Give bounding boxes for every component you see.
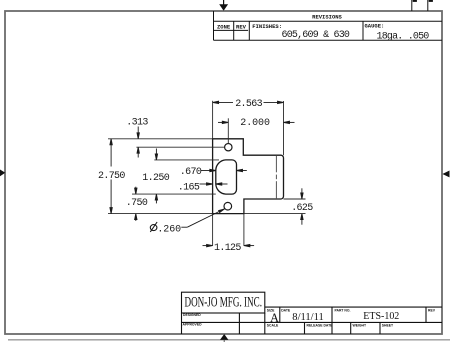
svg-text:.670: .670 bbox=[180, 167, 202, 178]
svg-text:DON-JO MFG. INC.: DON-JO MFG. INC. bbox=[185, 295, 263, 311]
svg-text:2.750: 2.750 bbox=[98, 171, 125, 182]
svg-text:2.000: 2.000 bbox=[240, 118, 270, 129]
svg-text:GAUGE:: GAUGE: bbox=[365, 22, 385, 29]
svg-text:.313: .313 bbox=[126, 117, 148, 128]
svg-text:DESIGNED: DESIGNED bbox=[183, 313, 201, 317]
svg-text:605,609 & 630: 605,609 & 630 bbox=[282, 30, 350, 41]
svg-text:.260: .260 bbox=[157, 224, 181, 235]
svg-text:SHEET: SHEET bbox=[382, 324, 394, 328]
svg-text:ETS-102: ETS-102 bbox=[363, 311, 399, 322]
svg-text:.625: .625 bbox=[291, 203, 313, 214]
svg-text:DATE: DATE bbox=[281, 308, 291, 312]
svg-text:18ga. .050: 18ga. .050 bbox=[377, 32, 430, 43]
svg-text:FINISHES:: FINISHES: bbox=[252, 23, 282, 30]
svg-text:1.250: 1.250 bbox=[142, 173, 169, 184]
svg-text:APPROVED: APPROVED bbox=[183, 323, 203, 327]
svg-text:REV: REV bbox=[236, 24, 247, 31]
svg-text:2.563: 2.563 bbox=[235, 99, 262, 110]
svg-text:8/11/11: 8/11/11 bbox=[292, 312, 324, 323]
svg-text:WEIGHT: WEIGHT bbox=[353, 324, 367, 328]
svg-text:REV: REV bbox=[428, 308, 436, 312]
svg-text:.165: .165 bbox=[178, 183, 200, 194]
svg-text:.750: .750 bbox=[126, 198, 148, 209]
svg-text:ZONE: ZONE bbox=[217, 24, 231, 31]
svg-text:1.125: 1.125 bbox=[214, 243, 241, 254]
svg-text:REVISIONS: REVISIONS bbox=[312, 13, 342, 20]
svg-text:RELEASE DATE: RELEASE DATE bbox=[307, 324, 334, 328]
svg-text:PART NO.: PART NO. bbox=[335, 308, 351, 312]
svg-text:A: A bbox=[270, 311, 279, 325]
